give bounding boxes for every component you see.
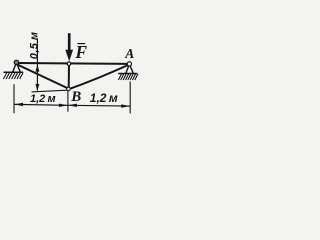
svg-text:1,2 м: 1,2 м	[30, 93, 56, 105]
svg-text:F: F	[74, 42, 87, 62]
svg-text:A: A	[124, 46, 134, 61]
svg-text:B: B	[70, 89, 81, 105]
svg-text:1,2 м: 1,2 м	[90, 91, 118, 105]
svg-text:0,5 м: 0,5 м	[29, 32, 41, 60]
